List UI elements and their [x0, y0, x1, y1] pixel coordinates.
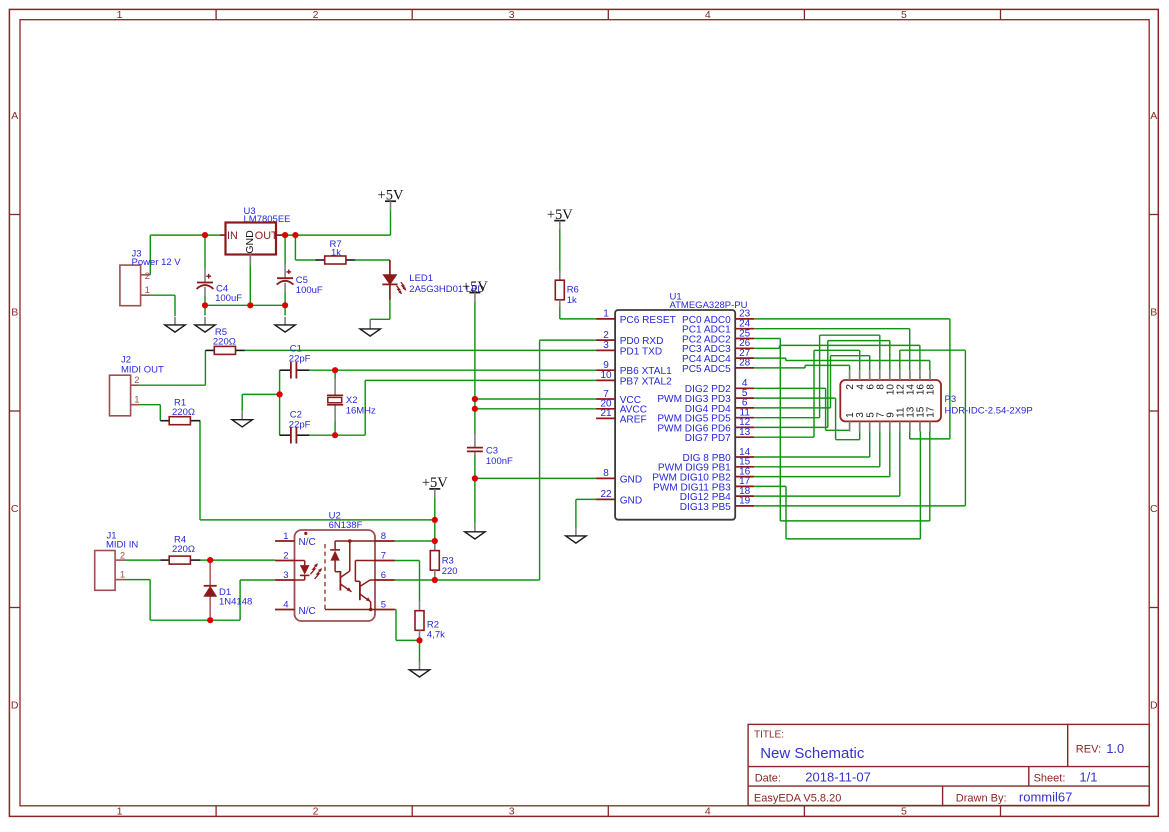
U1 pin 7 VCC — [596, 398, 615, 400]
svg-text:MIDI OUT: MIDI OUT — [121, 364, 164, 375]
resistor R1 — [169, 417, 190, 425]
wire J3.1 down — [174, 295, 176, 316]
capacitor C5 100uF — [284, 265, 286, 279]
U2 pin 8 — [375, 540, 395, 542]
net 17-P3 — [754, 485, 786, 487]
P3 pin 13 (bottom) — [909, 421, 911, 431]
svg-text:A: A — [1150, 110, 1157, 122]
U1 pin 6 DIG4 PD4 — [735, 407, 754, 409]
U1 pin 2 PD0 RXD — [596, 339, 615, 341]
svg-text:ATMEGA328P-PU: ATMEGA328P-PU — [670, 300, 748, 311]
U1 pin 26 PC3 ADC3 — [735, 347, 754, 349]
svg-text:GND: GND — [244, 230, 256, 254]
net 16-P3 — [754, 476, 890, 478]
wire gnd — [419, 640, 421, 662]
svg-text:3: 3 — [509, 9, 515, 21]
wire R7 to LED — [355, 259, 390, 261]
wire U3 GND down — [249, 265, 251, 306]
U1 pin 17 PWM DIG11 PB3 — [735, 485, 754, 487]
svg-text:2: 2 — [313, 9, 319, 21]
resistor R7 — [325, 256, 346, 264]
P3 pin 9 (bottom) — [889, 421, 891, 431]
U3 pin OUT — [276, 234, 285, 236]
svg-text:OUT: OUT — [255, 230, 278, 242]
U2 dashed isolation line — [324, 544, 326, 610]
wire to U3 IN — [150, 234, 220, 236]
net 18-P3 — [754, 495, 900, 497]
net 5-P3 — [754, 397, 835, 399]
wire U2.8 — [395, 540, 435, 542]
svg-text:2: 2 — [120, 550, 125, 561]
wire to R3 (via) — [434, 541, 436, 551]
wire J2.1 down — [159, 405, 161, 421]
svg-text:X2: X2 — [346, 395, 358, 406]
svg-text:3: 3 — [283, 570, 288, 581]
wire J3.1 right — [150, 294, 175, 296]
wire D1 top nub — [209, 560, 211, 563]
junction GND/C3 — [472, 475, 478, 481]
net 27-P3 — [754, 357, 786, 359]
wire LED to gnd — [370, 318, 390, 320]
svg-text:1k: 1k — [331, 247, 341, 258]
U2 photodiode — [334, 541, 336, 550]
P3 pin 2 (top) — [849, 370, 851, 380]
junction C2/X2 — [332, 432, 338, 438]
U1 pin 14 DIG 8 PB0 — [735, 456, 754, 458]
wire C5 bottom — [284, 292, 286, 305]
U1 pin 19 DIG13 PB5 — [735, 505, 754, 507]
U1 pin 12 PWM DIG6 PD6 — [735, 426, 754, 428]
junction R2/pin5 — [416, 637, 422, 643]
wire J1.2 to R4 — [126, 559, 161, 561]
U1 pin 20 AVCC — [596, 408, 615, 410]
svg-text:10: 10 — [600, 370, 612, 381]
svg-text:18: 18 — [926, 384, 937, 396]
junction VCC — [472, 396, 478, 402]
svg-text:4: 4 — [283, 600, 288, 611]
U2 pin1 marker dot — [304, 532, 307, 535]
svg-text:P3: P3 — [945, 394, 957, 405]
svg-text:GND: GND — [620, 474, 642, 485]
net 15-P3 — [754, 466, 880, 468]
junction R3/out — [432, 577, 438, 583]
svg-text:N/C: N/C — [299, 606, 316, 617]
svg-text:2: 2 — [145, 271, 150, 282]
diode D1 1N4148 — [209, 562, 211, 586]
svg-text:rommil67: rommil67 — [1019, 790, 1072, 805]
U2 pin 7 — [375, 560, 395, 562]
U2 pin 3 — [275, 579, 294, 581]
wire U2.5 down — [395, 610, 397, 641]
U1 pin 16 PWM DIG10 PB2 — [735, 476, 754, 478]
P3 pin 8 (top) — [879, 370, 881, 380]
capacitor C4 100uF — [204, 268, 206, 283]
wire R5 to TXD — [245, 349, 596, 351]
svg-text:AREF: AREF — [620, 414, 647, 425]
P3 pin 15 (bottom) — [919, 421, 921, 431]
resistor R3 — [430, 551, 439, 571]
svg-text:1: 1 — [117, 806, 123, 818]
optocoupler U2 6N138F — [295, 530, 376, 621]
U2 pin 4 — [275, 609, 294, 611]
junction R1/+5V — [432, 517, 438, 523]
resistor R4 — [169, 556, 190, 564]
wire riser to U2.3 — [239, 580, 241, 620]
svg-text:16MHz: 16MHz — [346, 405, 376, 416]
net 23-P3 — [754, 318, 950, 320]
P3 pin 4 (top) — [859, 370, 861, 380]
svg-text:220Ω: 220Ω — [213, 336, 236, 347]
wire RXD riser — [539, 340, 541, 580]
svg-text:22pF: 22pF — [289, 420, 311, 431]
P3 pin 7 (bottom) — [879, 421, 881, 431]
svg-text:3: 3 — [509, 806, 515, 818]
svg-text:2: 2 — [134, 375, 139, 386]
wire to R2 — [419, 561, 421, 602]
svg-text:1: 1 — [120, 570, 125, 581]
svg-text:REV:: REV: — [1076, 743, 1101, 755]
svg-text:B: B — [11, 307, 18, 319]
U1 pin 21 AREF — [596, 417, 615, 419]
wire XTAL1 — [335, 369, 596, 371]
wire gnd drop — [241, 394, 243, 411]
junction C5 gnd — [282, 302, 288, 308]
title block — [748, 724, 1149, 805]
svg-text:220: 220 — [442, 566, 458, 577]
P3 pin 16 (top) — [919, 370, 921, 380]
svg-text:8: 8 — [381, 531, 386, 542]
svg-text:1: 1 — [134, 395, 139, 406]
net 28-P3 — [754, 367, 805, 369]
wire gnd stubL — [369, 319, 371, 321]
svg-text:22: 22 — [600, 489, 612, 500]
U1 pin 4 DIG2 PD2 — [735, 387, 754, 389]
ground — [284, 317, 286, 325]
svg-text:21: 21 — [600, 408, 612, 419]
svg-text:A: A — [11, 110, 18, 122]
wire C5 gnd stub — [284, 305, 286, 315]
svg-text:LED1: LED1 — [409, 273, 433, 284]
svg-text:17: 17 — [926, 406, 937, 418]
wire C2 right — [309, 434, 335, 436]
U2 bottom rail — [325, 609, 375, 611]
U2 light arrows — [311, 564, 318, 574]
regulator U3 LM7805EE — [226, 223, 277, 255]
U3 pin GND — [249, 255, 251, 266]
U1 pin 23 PC0 ADC0 — [735, 318, 754, 320]
wire X2 bot green — [334, 421, 336, 435]
U2 pin 1 — [275, 540, 294, 542]
wire X2 top green — [334, 370, 336, 379]
wire U2.5 nub — [395, 609, 396, 611]
svg-text:22pF: 22pF — [289, 354, 311, 365]
svg-text:Sheet:: Sheet: — [1034, 772, 1066, 784]
svg-text:Drawn By:: Drawn By: — [956, 793, 1007, 805]
U2 transistor Q1 — [339, 571, 341, 591]
resistor R2 — [415, 611, 424, 631]
wire C1-C2 left rail — [279, 370, 281, 435]
svg-text:100nF: 100nF — [486, 456, 513, 467]
svg-text:28: 28 — [739, 358, 751, 369]
U1 pin 15 PWM DIG9 PB1 — [735, 466, 754, 468]
svg-text:D: D — [11, 700, 19, 712]
net 6-P3 — [754, 407, 830, 409]
wire LED cathode down — [389, 300, 391, 319]
resistor R6 — [555, 280, 564, 300]
wire VCC — [475, 398, 596, 400]
wire R6 bottom — [559, 307, 561, 319]
IC U1 ATMEGA328P-PU — [615, 310, 735, 520]
svg-text:5: 5 — [901, 9, 907, 21]
U1 pin 13 DIG7 PD7 — [735, 436, 754, 438]
wire C5 top — [284, 235, 286, 264]
wire J3.1 stub-out — [141, 294, 151, 296]
svg-text:1: 1 — [603, 309, 609, 320]
svg-text:GND: GND — [620, 495, 642, 506]
junction R4/D1 — [207, 557, 213, 563]
svg-text:LM7805EE: LM7805EE — [244, 214, 291, 225]
svg-text:D: D — [1150, 700, 1158, 712]
svg-text:3: 3 — [603, 340, 609, 351]
wire +5V down — [434, 498, 436, 541]
ground — [241, 412, 243, 420]
U1 pin 10 PB7 XTAL2 — [596, 379, 615, 381]
wire +5V drop — [390, 210, 392, 235]
U2 pin 2 — [275, 560, 294, 562]
U1 pin 18 DIG12 PB4 — [735, 495, 754, 497]
svg-text:4: 4 — [705, 9, 711, 21]
capacitor C3 100nF — [474, 434, 476, 448]
svg-text:PD1 TXD: PD1 TXD — [620, 346, 662, 357]
junction gnd branch — [277, 391, 283, 397]
svg-text:1: 1 — [145, 285, 150, 296]
P3 pin 12 (top) — [899, 370, 901, 380]
wire U2.7 — [394, 560, 419, 562]
net 12-P3 — [754, 426, 828, 428]
svg-text:1/1: 1/1 — [1079, 770, 1097, 785]
net 11-P3 — [754, 417, 819, 419]
wire AVCC — [475, 408, 596, 410]
wire up to R5 — [204, 350, 206, 385]
LED LED1 — [389, 260, 391, 275]
svg-text:7: 7 — [381, 551, 386, 562]
svg-text:1: 1 — [283, 531, 288, 542]
svg-text:PB7 XTAL2: PB7 XTAL2 — [620, 376, 672, 387]
wire to U2.3 — [240, 579, 275, 581]
wire to R2 bot — [396, 639, 420, 641]
P3 pin 14 (top) — [909, 370, 911, 380]
U1 pin 28 PC5 ADC5 — [735, 367, 754, 369]
wire C3 bottom rail — [474, 455, 476, 524]
gnd rail — [205, 304, 285, 306]
svg-text:HDR-IDC-2.54-2X9P: HDR-IDC-2.54-2X9P — [945, 406, 1033, 417]
svg-text:6N138F: 6N138F — [329, 520, 363, 531]
P3 pin 11 (bottom) — [899, 421, 901, 431]
P3 pin 5 (bottom) — [869, 421, 871, 431]
wire J1.1 down — [149, 580, 151, 621]
wire U2.6 out — [395, 579, 540, 581]
svg-text:2: 2 — [283, 551, 288, 562]
svg-text:1.0: 1.0 — [1106, 741, 1124, 756]
svg-text:DIG7 PD7: DIG7 PD7 — [685, 433, 731, 444]
svg-text:1N4148: 1N4148 — [219, 597, 252, 608]
U1 pin 25 PC2 ADC2 — [735, 338, 754, 340]
wire XTAL2 — [365, 379, 596, 381]
ground — [419, 662, 421, 670]
wire J3.2 up — [149, 235, 151, 275]
svg-text:IN: IN — [227, 230, 238, 242]
svg-text:Date:: Date: — [755, 772, 781, 784]
resistor R5 — [214, 346, 235, 354]
U1 pin 3 PD1 TXD — [596, 349, 615, 351]
svg-text:1k: 1k — [567, 295, 577, 306]
wire J1.1 — [126, 579, 151, 581]
svg-text:4,7k: 4,7k — [427, 630, 445, 641]
junction D1 bottom — [207, 617, 213, 623]
U1 pin 8 GND — [596, 477, 615, 479]
wire C1 right — [309, 369, 335, 371]
svg-text:220Ω: 220Ω — [172, 407, 195, 418]
junction U2.8 — [432, 538, 438, 544]
U2 top rail to pin 8 — [335, 540, 375, 542]
junction C1/X2 — [332, 367, 338, 373]
P3 pin 10 (top) — [889, 370, 891, 380]
P3 pin 18 (top) — [929, 370, 931, 380]
net 24-P3 — [754, 328, 910, 330]
net 25-P3 — [754, 338, 780, 340]
wire OUT to +5V — [285, 234, 391, 236]
wire to gnd — [242, 393, 279, 395]
header P3 HDR-IDC-2.54-2X9P — [840, 380, 941, 421]
wire bottom — [150, 619, 240, 621]
svg-text:2018-11-07: 2018-11-07 — [805, 770, 871, 785]
wire GND22 — [576, 498, 596, 500]
junction C4/IN — [202, 232, 208, 238]
wire to riser — [335, 434, 365, 436]
junction C4 gnd — [202, 302, 208, 308]
svg-text:1: 1 — [117, 9, 123, 21]
P3 pin 17 (bottom) — [929, 421, 931, 431]
svg-text:PC6 RESET: PC6 RESET — [620, 315, 676, 326]
wire R1 right nub — [190, 420, 200, 422]
wire GND22 down — [575, 499, 577, 528]
svg-text:EasyEDA V5.8.20: EasyEDA V5.8.20 — [754, 792, 841, 804]
wire to R7 — [295, 259, 315, 261]
wire D1 bot nub — [209, 617, 211, 620]
wire C4 bottom — [204, 296, 206, 305]
P3 pin 1 (bottom) — [849, 421, 851, 431]
wire R4 to U2.2 — [200, 559, 275, 561]
ground — [174, 317, 176, 325]
svg-text:100uF: 100uF — [215, 293, 242, 304]
wire +5V rail down — [474, 302, 476, 434]
connector J1 MIDI IN — [95, 551, 115, 591]
U2 internal LED — [304, 561, 306, 566]
wire to RESET — [560, 318, 596, 320]
svg-text:PC5 ADC5: PC5 ADC5 — [682, 364, 731, 375]
wire C4 gnd stub — [204, 305, 206, 315]
junction R7 branch — [292, 232, 298, 238]
net 14-P3 — [754, 456, 870, 458]
junction AVCC — [472, 406, 478, 412]
ground — [204, 317, 206, 325]
U2 pin 5 — [375, 609, 395, 611]
U1 pin 1 PC6 RESET — [596, 318, 615, 320]
svg-text:13: 13 — [739, 427, 751, 438]
svg-text:New Schematic: New Schematic — [760, 745, 865, 762]
svg-text:100uF: 100uF — [296, 285, 323, 296]
wire GND pin8 — [475, 477, 596, 479]
net 4-P3 — [754, 387, 825, 389]
ground — [474, 524, 476, 532]
U1 pin 22 GND — [596, 498, 615, 500]
svg-text:4: 4 — [705, 806, 711, 818]
U1 pin 27 PC4 ADC4 — [735, 357, 754, 359]
ground — [575, 528, 577, 536]
svg-text:B: B — [1150, 307, 1157, 319]
wire R1 to +5V — [200, 519, 435, 521]
svg-text:5: 5 — [381, 600, 386, 611]
wire R1 down — [199, 421, 201, 520]
wire J2.2 — [139, 384, 205, 386]
svg-text:TITLE:: TITLE: — [754, 730, 784, 741]
svg-text:6: 6 — [381, 570, 386, 581]
net 13-P3 — [754, 436, 814, 438]
capacitor C2 22pF — [280, 434, 291, 436]
crystal X2 16MHz — [334, 379, 336, 395]
svg-text:DIG13 PB5: DIG13 PB5 — [680, 502, 731, 513]
connector J3 Power 12 V — [120, 265, 141, 306]
svg-text:8: 8 — [603, 468, 609, 479]
wire R6 top — [559, 230, 561, 271]
svg-text:5: 5 — [901, 806, 907, 818]
svg-text:220Ω: 220Ω — [172, 544, 195, 555]
U2 pin 6 — [375, 579, 395, 581]
svg-text:C: C — [1150, 503, 1158, 515]
svg-text:C: C — [11, 503, 19, 515]
U2 transistor Q2 — [354, 561, 356, 582]
P3 pin 3 (bottom) — [859, 421, 861, 431]
svg-text:N/C: N/C — [299, 537, 316, 548]
wire branch R7 down — [294, 235, 296, 260]
net 26-P3 — [754, 347, 779, 349]
junction C5/OUT — [282, 232, 288, 238]
wire RXD — [540, 339, 597, 341]
U1 pin 5 PWM DIG3 PD3 — [735, 397, 754, 399]
svg-text:19: 19 — [739, 496, 751, 507]
wire riser XTAL2 — [364, 380, 366, 435]
U1 pin 24 PC1 ADC1 — [735, 328, 754, 330]
U1 pin 11 PWM DIG5 PD5 — [735, 417, 754, 419]
wire J2.1 — [139, 404, 160, 406]
svg-text:MIDI IN: MIDI IN — [106, 540, 138, 551]
P3 pin 6 (top) — [869, 370, 871, 380]
U3 pin IN — [220, 234, 226, 236]
ground — [369, 321, 371, 329]
wire C4 top — [204, 235, 206, 268]
connector J2 MIDI OUT — [110, 375, 131, 416]
svg-text:2: 2 — [313, 806, 319, 818]
svg-text:Power 12 V: Power 12 V — [132, 257, 182, 268]
net 19-P3 — [754, 505, 965, 507]
capacitor C1 22pF — [280, 369, 291, 371]
junction U3 gnd — [247, 302, 253, 308]
U1 pin 9 PB6 XTAL1 — [596, 369, 615, 371]
